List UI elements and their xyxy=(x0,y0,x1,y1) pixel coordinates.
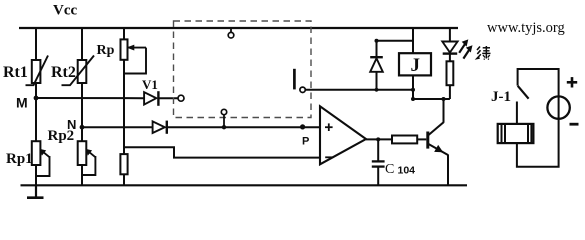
source - sign xyxy=(570,123,579,126)
freewheel diode triangle xyxy=(370,58,383,71)
wire V1 to terminal xyxy=(158,97,178,99)
wire op-amp output xyxy=(366,138,392,140)
wire divider tap to op-amp - input xyxy=(124,147,320,157)
node P junction xyxy=(300,124,305,129)
wire diode top to coil top xyxy=(377,40,414,42)
wire right circuit top xyxy=(518,69,559,96)
diode V1 xyxy=(144,92,156,104)
capacitor C104 plates xyxy=(372,160,385,162)
terminal on Vcc rail xyxy=(230,29,232,32)
resistor LED R xyxy=(447,61,454,85)
transistor emitter arm with arrow xyxy=(428,144,448,155)
LED VL anode triangle xyxy=(442,42,457,53)
wire Rp wiper short to bottom xyxy=(124,48,146,74)
svg-text:104: 104 xyxy=(398,164,416,176)
potentiometer Rp1 xyxy=(32,141,41,165)
wire Rp1 wiper to bottom xyxy=(36,156,50,176)
node M junction xyxy=(34,96,39,101)
heater load hatch bars xyxy=(501,124,503,143)
resistor base R xyxy=(392,136,417,144)
wire resistor to collector node xyxy=(449,85,451,99)
wire rail to relay coil xyxy=(412,28,414,53)
wire terminal to relay bottom xyxy=(305,89,412,91)
wire node N to diode xyxy=(82,126,153,128)
wire node N to Rp2 xyxy=(81,127,83,141)
wire Rt1 to node M xyxy=(35,83,37,98)
LED emission arrows xyxy=(459,44,465,53)
switch bar mark xyxy=(293,69,296,90)
terminal V1 output xyxy=(178,95,184,101)
svg-text:Rp1: Rp1 xyxy=(6,151,33,167)
terminal to N line xyxy=(221,109,226,114)
terminal to relay node xyxy=(300,87,305,92)
relay contact J-1 blade xyxy=(518,86,529,99)
resistor R divider xyxy=(120,154,127,174)
diode V2 cathode bar xyxy=(166,121,168,134)
wire Vcc to Rt1 xyxy=(35,28,37,60)
ground bar xyxy=(27,196,44,199)
label green LED (CJK glyph drawn) xyxy=(477,47,480,51)
potentiometer Rp2 wiper arrow xyxy=(86,150,95,157)
relay coil J xyxy=(399,53,431,75)
wire node M to Rp1 xyxy=(35,98,37,141)
svg-text:Rp2: Rp2 xyxy=(48,128,75,144)
thermistor Rt1 strike xyxy=(26,56,49,86)
thermistor Rt2 strike xyxy=(62,56,95,86)
junction output/capacitor xyxy=(376,137,380,141)
heater load box xyxy=(498,124,534,143)
battery source circle xyxy=(547,96,569,118)
wire collector up xyxy=(443,99,445,123)
thermistor Rt1 xyxy=(32,60,41,83)
svg-text:Rt1: Rt1 xyxy=(3,64,28,81)
node N junction xyxy=(80,125,85,130)
potentiometer Rp2 xyxy=(78,141,87,165)
wire ground bottom rail xyxy=(21,184,468,186)
wire R to base xyxy=(417,138,426,140)
wire node M to V1 anode xyxy=(36,97,144,99)
svg-text:J: J xyxy=(411,55,421,76)
svg-text:P: P xyxy=(302,136,309,148)
potentiometer Rp wiper arrow xyxy=(129,47,147,49)
wire Vcc to Rp xyxy=(123,28,125,39)
wire emitter to rail xyxy=(447,155,449,186)
source + sign xyxy=(567,81,577,84)
op-amp + sign xyxy=(325,126,333,128)
diode V2 xyxy=(153,121,165,133)
junction diode anode xyxy=(375,88,379,92)
wire relay bottom to LED branch xyxy=(413,98,450,100)
wire Vcc top rail xyxy=(19,27,458,29)
op-amp U1 xyxy=(320,106,366,164)
LED cathode bar xyxy=(443,52,458,54)
wire capacitor to rail xyxy=(377,167,379,186)
junction collector node xyxy=(442,97,446,101)
wire through source xyxy=(558,96,560,118)
potentiometer Rp xyxy=(121,39,128,59)
junction terminal wire on relay column xyxy=(411,88,415,92)
corner diode top xyxy=(375,39,379,43)
junction terminal stub on N line xyxy=(222,125,226,129)
svg-text:Vcc: Vcc xyxy=(53,3,77,19)
wire contact to load xyxy=(516,102,518,124)
wire Vcc to Rt2 xyxy=(81,28,83,60)
wire Rt2 to node N xyxy=(81,83,83,127)
svg-text:V1: V1 xyxy=(142,77,158,92)
wire output to capacitor xyxy=(377,139,379,161)
wire relay coil to corner xyxy=(412,75,414,99)
wire Rp1 to rail xyxy=(35,165,37,185)
dashed temperature-controller box xyxy=(174,21,312,118)
transistor collector arm xyxy=(428,122,444,135)
svg-text:C: C xyxy=(385,162,394,177)
wire diode anode down xyxy=(376,72,378,90)
svg-text:Rt2: Rt2 xyxy=(51,64,76,81)
wire Rp down to R divider xyxy=(123,60,125,154)
wire Rp2 wiper to bottom xyxy=(82,156,95,175)
wire load to bottom xyxy=(517,119,559,167)
wire R divider to rail xyxy=(123,174,125,185)
svg-text:Rp: Rp xyxy=(97,43,115,58)
transistor Q1 base bar xyxy=(426,132,429,149)
wire to diode cathode xyxy=(376,41,378,57)
wire rail to LED xyxy=(449,28,451,42)
diode V1 cathode bar xyxy=(157,91,159,106)
op-amp - sign xyxy=(325,156,333,158)
ground stub xyxy=(35,185,37,197)
corner junction relay bottom xyxy=(411,97,415,101)
svg-text:M: M xyxy=(16,95,28,111)
wire Rp2 to rail xyxy=(81,165,83,185)
freewheel diode cathode bar xyxy=(370,56,383,58)
svg-text:J-1: J-1 xyxy=(491,89,511,105)
potentiometer Rp1 wiper arrow xyxy=(41,150,50,157)
wire diode to op-amp + input xyxy=(167,126,320,128)
svg-text:www.tyjs.org: www.tyjs.org xyxy=(487,20,565,36)
thermistor Rt2 xyxy=(78,60,87,83)
wire LED to resistor xyxy=(449,54,451,62)
